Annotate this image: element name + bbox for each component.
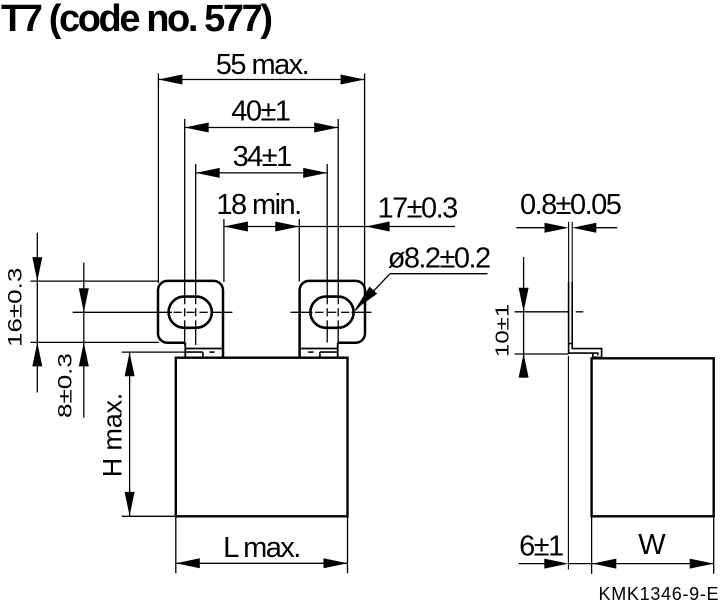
svg-text:H max.: H max. <box>97 393 127 477</box>
dimension H max <box>97 352 185 516</box>
left terminal bracket plate <box>158 281 223 358</box>
side view hole centerline <box>515 311 584 313</box>
svg-text:KMK1346-9-E: KMK1346-9-E <box>599 584 720 604</box>
dimension 17±0.3 <box>299 193 457 232</box>
svg-text:18 min.: 18 min. <box>216 189 300 221</box>
side view body outline <box>592 358 714 516</box>
right bracket crimp foot <box>300 349 338 358</box>
dimension 40±1 <box>185 95 339 345</box>
dimension 10±1 <box>492 257 568 378</box>
body outline front view <box>176 358 348 517</box>
right terminal bracket plate <box>300 281 365 358</box>
svg-text:T7 (code no. 577): T7 (code no. 577) <box>1 0 271 40</box>
right bracket slot hole <box>310 297 353 328</box>
dimension 55 max <box>158 49 364 285</box>
title T7 (code no. 577) <box>1 0 271 40</box>
svg-text:8±0.3: 8±0.3 <box>54 353 76 418</box>
svg-text:0.8±0.05: 0.8±0.05 <box>520 189 621 221</box>
svg-text:W: W <box>638 529 666 561</box>
dimension 16±0.3 <box>4 233 159 393</box>
svg-text:6±1: 6±1 <box>519 531 563 563</box>
left bracket crimp foot <box>185 349 223 358</box>
left hole centerline horizontal <box>73 311 233 313</box>
dimension 18 min <box>216 189 300 282</box>
right hole centerline horizontal <box>291 311 372 313</box>
dimension 8±0.3 <box>54 263 89 419</box>
svg-text:16±0.3: 16±0.3 <box>4 268 26 347</box>
label ø8.2±0.2 with leader <box>355 243 490 311</box>
side view terminal strip <box>569 282 602 358</box>
svg-text:ø8.2±0.2: ø8.2±0.2 <box>388 243 490 275</box>
dimension W <box>592 516 714 574</box>
dimension 0.8±0.05 <box>516 189 620 282</box>
dimension 6±1 <box>519 356 592 570</box>
svg-text:17±0.3: 17±0.3 <box>378 193 458 225</box>
dimension L max <box>176 516 348 573</box>
svg-text:55 max.: 55 max. <box>216 49 308 81</box>
svg-text:10±1: 10±1 <box>492 304 513 357</box>
dimension 34±1 <box>196 141 328 345</box>
svg-text:L max.: L max. <box>223 532 300 564</box>
svg-text:40±1: 40±1 <box>231 95 290 127</box>
left bracket slot hole <box>169 297 212 328</box>
drawing number KMK1346-9-E <box>599 584 720 604</box>
svg-text:34±1: 34±1 <box>233 141 292 173</box>
